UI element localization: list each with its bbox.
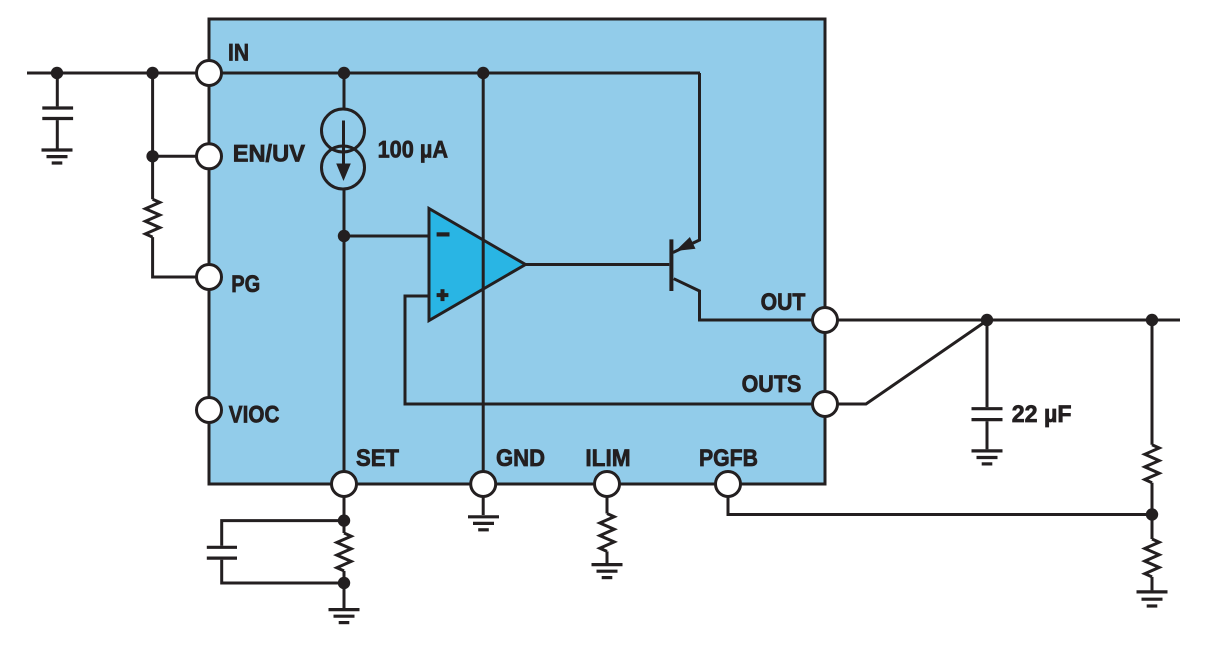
node input cap tap <box>51 67 63 79</box>
svg-text:VIOC: VIOC <box>229 401 280 428</box>
wire EN/UV drop <box>153 73 196 199</box>
resistor R_ILIM <box>600 514 614 552</box>
node EN/UV junction <box>146 150 158 162</box>
svg-text:PG: PG <box>231 271 260 298</box>
wire divider mid <box>1151 483 1154 539</box>
node op-amp minus tap <box>338 230 350 242</box>
wire OUT rail <box>838 319 1180 322</box>
pin SET <box>332 472 357 497</box>
ground GND pin <box>468 517 499 530</box>
wire op-amp output <box>525 263 669 266</box>
current source I1 <box>322 109 365 189</box>
label SET <box>356 445 399 472</box>
pin OUT <box>813 308 838 333</box>
wire OUTS link <box>838 321 987 405</box>
svg-text:ILIM: ILIM <box>585 445 630 472</box>
resistor R_DIV2 <box>1145 539 1159 577</box>
label PGFB <box>699 445 758 472</box>
pin ILIM <box>595 472 620 497</box>
label GND <box>496 445 545 472</box>
resistor R_PG <box>145 199 159 237</box>
node EN divider tap <box>146 67 158 79</box>
node SET bottom <box>338 577 350 589</box>
label EN/UV <box>233 141 305 168</box>
pin PG <box>197 265 222 290</box>
label 22 uF <box>1012 401 1072 428</box>
wire divider bottom <box>1151 577 1154 591</box>
node divider mid tap <box>1146 508 1158 520</box>
ground output cap <box>972 451 1003 464</box>
wire GND drop <box>482 497 485 515</box>
svg-text:IN: IN <box>228 40 249 67</box>
ground divider <box>1137 592 1168 606</box>
wire ILIM drop <box>606 497 609 514</box>
node current source tap <box>338 67 350 79</box>
label VIOC <box>229 401 280 428</box>
wire ILIM bottom <box>606 551 609 563</box>
ground SET <box>329 610 360 623</box>
svg-text:PGFB: PGFB <box>699 445 758 472</box>
wire input rail <box>27 72 196 75</box>
svg-text:OUT: OUT <box>761 289 806 316</box>
ground input cap <box>42 150 73 163</box>
pin GND <box>471 472 496 497</box>
wire SET drop <box>343 497 346 533</box>
pin EN/UV <box>197 144 222 169</box>
capacitor C_OUT <box>972 320 1003 449</box>
wire IN top rail <box>222 72 700 75</box>
resistor R_DIV1 <box>1145 445 1159 483</box>
svg-text:22 µF: 22 µF <box>1012 401 1072 428</box>
IC body U1 <box>209 19 825 484</box>
transistor Q1 <box>671 73 812 320</box>
pin OUTS <box>813 392 838 417</box>
wire current source branch <box>343 73 346 471</box>
node output cap tap <box>981 314 993 326</box>
pin IN <box>197 61 222 86</box>
wire gnd rail <box>482 73 485 471</box>
wire op-amp plus input <box>405 296 812 404</box>
pin VIOC <box>197 398 222 423</box>
label 100 uA <box>378 137 448 164</box>
svg-text:EN/UV: EN/UV <box>233 141 305 168</box>
pin PGFB <box>716 472 741 497</box>
resistor R_SET <box>337 533 351 571</box>
node divider top tap <box>1146 314 1158 326</box>
ground ILIM <box>592 565 623 578</box>
label IN <box>228 40 249 67</box>
svg-text:100 µA: 100 µA <box>378 137 448 164</box>
wire SET bottom <box>343 571 346 608</box>
node SET top <box>338 514 350 526</box>
svg-text:OUTS: OUTS <box>742 371 802 398</box>
svg-text:GND: GND <box>496 445 545 472</box>
wire PGFB link <box>728 497 1152 515</box>
label PG <box>231 271 260 298</box>
label OUTS <box>742 371 802 398</box>
capacitor C_IN <box>42 73 73 149</box>
wire divider top <box>1151 320 1154 445</box>
svg-text:SET: SET <box>356 445 399 472</box>
capacitor C_SET <box>207 521 344 583</box>
wire op-amp minus input <box>344 235 429 238</box>
label ILIM <box>585 445 630 472</box>
wire PG elbow <box>153 237 197 277</box>
label OUT <box>761 289 806 316</box>
node gnd rail tap <box>477 67 489 79</box>
op-amp U2 <box>429 209 526 321</box>
